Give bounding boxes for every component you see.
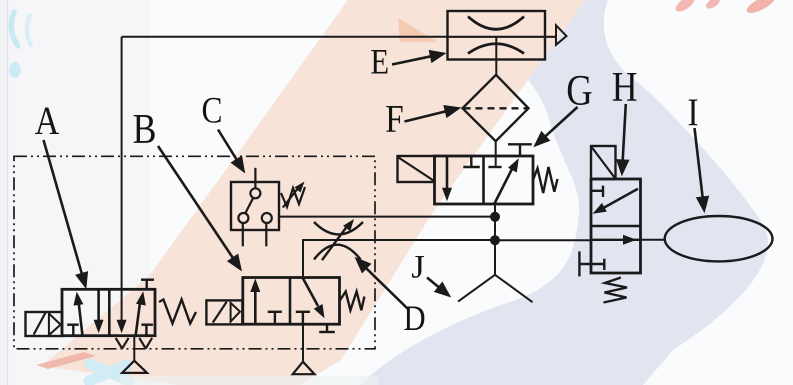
svg-text:E: E xyxy=(370,42,389,82)
label I with leader arrow xyxy=(687,91,709,214)
svg-text:C: C xyxy=(202,90,223,131)
wire: node K1 down to node K2 xyxy=(494,217,496,240)
label G with leader arrow xyxy=(533,66,592,148)
label D with leader arrow xyxy=(355,257,426,339)
label F with leader arrow xyxy=(385,97,461,140)
wire: filter F down into valve G port xyxy=(495,141,497,167)
enclosure dash-dot boundary box xyxy=(14,156,375,348)
branch fitting J xyxy=(458,240,533,302)
label C with leader arrow xyxy=(202,90,246,173)
filter F xyxy=(463,75,529,141)
label E with leader arrow xyxy=(370,42,446,82)
throttle valve D xyxy=(314,219,363,260)
wire: pressure switch C to node K1 xyxy=(279,216,495,218)
wire: node K2 to valve H inlet xyxy=(495,239,591,241)
solenoid 3/2 valve B xyxy=(206,278,364,333)
wire: valve G outlet down to node K1 xyxy=(494,204,496,217)
solenoid 3/2 valve A xyxy=(26,280,197,336)
exhaust muffler under valve A xyxy=(122,336,147,373)
vacuum pad I (ellipse) xyxy=(665,216,773,261)
wire: ejector E vacuum port down to filter F xyxy=(495,37,497,75)
svg-text:B: B xyxy=(133,106,157,152)
exhaust check marks under valve A xyxy=(116,338,152,349)
exhaust muffler under valve B xyxy=(293,324,315,374)
svg-text:D: D xyxy=(403,299,425,339)
svg-text:H: H xyxy=(612,64,638,110)
vacuum ejector E xyxy=(448,11,567,60)
label J with leader arrow xyxy=(411,249,451,297)
wire: supply line from valve A up and across to ejector E xyxy=(122,37,448,322)
label B with leader arrow xyxy=(133,106,242,271)
node K1 junction dot xyxy=(490,212,500,222)
pressure switch C xyxy=(231,168,305,247)
pilot-operated 2/2 valve H xyxy=(579,146,640,303)
pilot-operated 3/2 valve G xyxy=(398,144,558,204)
wire: valve H outlet to vacuum pad I xyxy=(641,239,666,241)
label A with leader arrow xyxy=(35,100,88,290)
svg-text:A: A xyxy=(35,100,60,144)
node K2 junction dot xyxy=(490,235,500,245)
svg-text:I: I xyxy=(687,91,698,134)
svg-text:J: J xyxy=(411,249,424,285)
wire: throttle D line from valve B riser to node K2 xyxy=(303,239,495,278)
svg-text:G: G xyxy=(566,66,592,114)
label H with leader arrow xyxy=(612,64,638,176)
svg-text:F: F xyxy=(385,97,403,140)
